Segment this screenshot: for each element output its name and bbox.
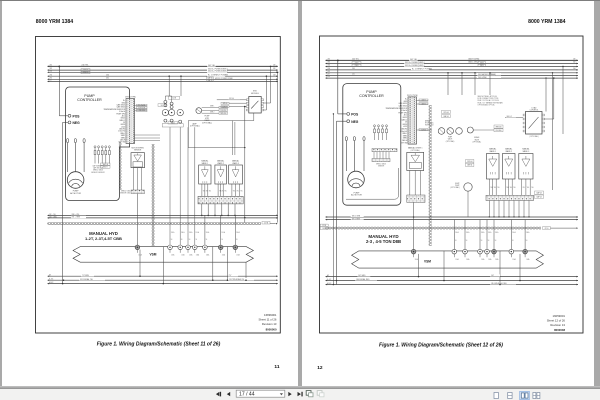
wand sensor A3: [199, 160, 212, 197]
motor lead U: [67, 139, 69, 172]
banner crossing verticals: [140, 247, 246, 284]
wand drop wires R: [489, 201, 530, 218]
wire POS drop: [58, 66, 60, 115]
bus R stub drops: [447, 72, 491, 95]
node junction on bus L1: [58, 65, 60, 67]
layout icon two-up continuous: [533, 393, 540, 399]
terminal POS R: [347, 113, 359, 117]
ORN CLR label boxes: [473, 125, 503, 132]
page number 12: [317, 365, 323, 371]
drops to banner R: [454, 219, 525, 249]
schematic frame sheet 12: [320, 36, 584, 333]
bus label 234: [106, 74, 109, 76]
wire bus R6: [326, 75, 579, 77]
wire bus R7: [326, 77, 579, 79]
banner crossing verticals R: [419, 251, 521, 285]
wand sensor A9: [519, 148, 534, 196]
wire vertical right A: [264, 75, 268, 110]
header right page: [528, 19, 566, 25]
manual lever sensor A6: [407, 147, 424, 171]
wire mid bus R2: [326, 218, 579, 221]
pin name labels J1: [103, 100, 126, 143]
button last page: [298, 392, 303, 397]
terminal NEG R: [347, 120, 359, 124]
wand drop wires to banner: [205, 215, 235, 244]
footer block sheet 11: [259, 313, 277, 331]
bus label 231: [106, 78, 109, 80]
wire bottom bus B3: [48, 283, 278, 285]
wire bottom bus BR1: [326, 274, 579, 277]
motor lead W R: [363, 137, 365, 171]
lever connector strips: [407, 195, 425, 202]
wand sensor A4: [215, 160, 227, 197]
wire NEG drop: [63, 122, 68, 283]
button next view (disabled): [317, 391, 324, 397]
wire contactor feeds: [165, 75, 181, 102]
layout icon two-up selected: [520, 391, 530, 399]
chain cable W3 horizontal: [48, 221, 278, 225]
label PUMP MTR REVR: [202, 116, 212, 125]
drop wire labels above banner: [171, 231, 240, 241]
bus label 240 YEL: [81, 64, 88, 66]
viewer gray background: [0, 0, 600, 1]
terminal POS: [68, 114, 80, 118]
CAP 04 labels right of J5: [535, 191, 544, 199]
wire bus L1: [48, 64, 278, 67]
wire POS long drop R: [333, 113, 335, 285]
wire sensor to banner: [137, 194, 139, 246]
wire loop to wands: [232, 121, 235, 155]
wire labels right of J4: [417, 99, 433, 131]
wire mid bus R1: [326, 215, 579, 218]
wire POS drop R: [338, 60, 347, 114]
4-way stub wires: [374, 152, 389, 159]
connector J4 pin strip: [408, 97, 417, 144]
wand drop wires: [201, 204, 236, 216]
wand connector strip J2: [198, 196, 243, 204]
note text block: [478, 95, 503, 106]
left page (sheet 11): [2, 1, 298, 386]
wire bottom bus BR3: [326, 282, 579, 285]
connector J1 pin strip: [126, 99, 135, 144]
pin name labels J4: [385, 99, 408, 145]
wire bus R5: [326, 72, 579, 74]
wire bus R4: [326, 68, 579, 71]
sensor connector row: [120, 190, 145, 195]
wire bus L6: [48, 81, 278, 83]
header left page: [36, 19, 74, 25]
bus R labels METER: [477, 73, 501, 79]
wand sensor A8: [503, 148, 516, 196]
node junction bus R1: [337, 59, 339, 61]
pump controller U4: [343, 84, 401, 206]
wire bus R2: [326, 61, 579, 64]
wire bus L3: [48, 70, 278, 73]
wire bottom bus B1: [48, 274, 278, 277]
label J4 type: [407, 95, 418, 97]
label MANUAL HYD R: [366, 234, 401, 244]
bus R labels CAN: [468, 57, 480, 63]
chain cable W6 horizontal R: [320, 224, 578, 230]
capacitor bank C1-C5: [94, 146, 110, 164]
load control pins: [523, 114, 544, 132]
svg-text:17 / 44: 17 / 44: [239, 392, 255, 398]
wire bottom bus B2: [48, 278, 278, 281]
VSM banner ribbon R: [352, 251, 544, 268]
wire lamp branch: [188, 113, 254, 128]
bus end labels left page: [50, 65, 276, 82]
chain cable W5 vertical R: [429, 105, 432, 246]
contactor K1 circles: [162, 100, 183, 127]
relay K2 labels: [202, 106, 228, 115]
wire bus L4: [48, 74, 278, 77]
schematic frame sheet 11: [36, 37, 281, 334]
toolbar divider: [0, 386, 600, 389]
brake valve circle: [467, 127, 481, 143]
amp circles K3: [438, 128, 462, 143]
SRO module U2: [249, 91, 261, 113]
mini connector rows: [101, 163, 111, 169]
wire vertical right C: [277, 72, 279, 223]
bottom toolbar: [0, 389, 600, 400]
wire bottom bus BR2: [326, 278, 579, 281]
label hydraulic interlock: [425, 120, 435, 127]
button previous view: [306, 391, 313, 397]
wire bus R3: [326, 64, 579, 67]
bus label CAP 50 MICRO POWER: [207, 77, 234, 83]
4-way labels: [376, 163, 386, 167]
capacitor bank labels: [91, 165, 105, 174]
inner box corner: [346, 168, 399, 199]
bus end labels right page: [328, 59, 576, 79]
wire bus L5: [48, 78, 278, 80]
caption sheet 12: [379, 343, 503, 349]
pump motor M1: [67, 172, 84, 195]
wire SRO left lead: [217, 97, 247, 100]
wire CAN H out of J1: [135, 135, 161, 141]
chain cable W2 vertical: [119, 142, 122, 190]
VSM banner ribbon: [73, 247, 253, 263]
banner connector circles R: [411, 249, 529, 261]
wire bus R1: [326, 58, 579, 61]
layout icon continuous: [508, 393, 512, 399]
wire load control leads: [505, 77, 555, 119]
load control module U3: [526, 106, 543, 138]
4-way connector strip B: [372, 159, 390, 162]
wire loop horizontal: [188, 121, 245, 149]
bus R labels left: [352, 58, 361, 75]
button first page: [216, 392, 221, 397]
bus label 230B stack: [81, 69, 90, 74]
wire mid bus M1: [48, 213, 278, 216]
motor lead U R: [345, 137, 347, 171]
relay K2: [196, 108, 202, 114]
button previous page: [227, 392, 230, 396]
lever drop to banner: [413, 202, 415, 249]
contactor drops to banner: [170, 127, 195, 245]
wire SRO mid leads: [221, 102, 246, 108]
chain cable W1 vertical: [152, 144, 155, 246]
label MANUAL HYD group: [85, 231, 122, 241]
capacitor bank C6-C9: [374, 125, 388, 140]
wand sensor A7: [487, 148, 500, 196]
page number input 17 / 44: [236, 390, 285, 397]
contactor top labels: [158, 96, 180, 124]
motor lead W: [83, 139, 85, 172]
button next page: [288, 392, 291, 396]
footer block sheet 12: [547, 314, 566, 332]
wire bus L2: [48, 68, 278, 71]
bottom bus left labels R: [327, 274, 331, 285]
caption sheet 11: [97, 342, 221, 348]
label J1 type: [125, 97, 136, 99]
speed sensor module A2: [131, 148, 145, 168]
layout icon single page: [494, 393, 498, 399]
wire vertical right B: [264, 66, 272, 103]
mid bus left labels: [49, 214, 57, 219]
pump motor M2: [348, 171, 365, 196]
motor lead V: [74, 139, 76, 172]
CPS 04 labels lower: [466, 160, 474, 167]
pump controller U1: [66, 87, 130, 201]
right page (sheet 12): [302, 1, 594, 386]
wire NEG drop R: [336, 121, 347, 284]
wire verticals top right R: [545, 66, 563, 190]
banner connector circles: [135, 245, 240, 257]
wand sensor A5: [229, 160, 243, 197]
SRO module pins: [246, 99, 263, 111]
wire SRO drop to chain: [244, 107, 246, 223]
bus R right labels 332B: [478, 62, 486, 67]
page number 11: [274, 364, 279, 370]
CPS 04 labels: [442, 110, 450, 118]
drop wire labels above banner R: [455, 231, 529, 242]
sump pump circle: [450, 183, 472, 217]
wand connector strip J5: [486, 195, 534, 200]
wire labels right of J1: [135, 104, 148, 112]
lever leads A6: [410, 171, 421, 196]
wire mid bus M2: [48, 216, 278, 219]
terminal NEG: [68, 121, 80, 125]
bottom bus left labels: [49, 274, 53, 284]
motor lead V R: [353, 137, 355, 171]
4-way connector strip A: [372, 149, 397, 152]
sensor leads A2: [134, 168, 142, 190]
